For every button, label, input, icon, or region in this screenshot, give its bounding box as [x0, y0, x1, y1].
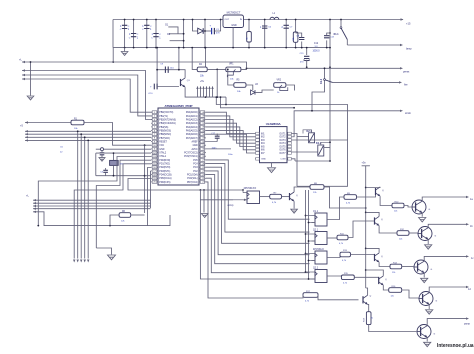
resistor R9 4.7k [344, 193, 357, 205]
resistor R11 4.7k [337, 233, 348, 245]
svg-text:PD7(OC2): PD7(OC2) [187, 182, 198, 184]
svg-text:Q: Q [296, 195, 298, 197]
resistor R18 vertical [364, 312, 374, 325]
wire input2 4 [33, 208, 151, 210]
wire reset drop [144, 145, 146, 213]
svg-text:lamp: lamp [406, 47, 412, 51]
svg-text:1k: 1k [372, 317, 374, 319]
svg-text:Q1.1: Q1.1 [313, 211, 319, 213]
wire +5 reset feed [25, 121, 71, 123]
svg-text:K1.1: K1.1 [334, 34, 340, 36]
relay K1.2 [292, 142, 331, 156]
svg-text:GND: GND [159, 149, 164, 151]
switch contact K1.3 [312, 67, 333, 110]
wire vt4 collector [429, 286, 469, 293]
svg-text:MC7805CT: MC7805CT [227, 11, 241, 15]
op-amp U2 left pins [151, 111, 176, 184]
svg-text:PB0(XCK/T0): PB0(XCK/T0) [159, 112, 173, 114]
wire VR1 out [241, 67, 248, 69]
trimmer VR1 [226, 64, 241, 81]
wire right riser [329, 19, 331, 161]
svg-text:Q: Q [381, 219, 383, 221]
svg-text:ATMEGA8535_PDIP: ATMEGA8535_PDIP [164, 104, 192, 108]
ground Q2 [291, 201, 298, 213]
svg-text:comp: comp [227, 204, 234, 207]
capacitor C2 [120, 19, 130, 49]
svg-text:Q: Q [382, 190, 384, 192]
terminal circle [101, 148, 104, 151]
capacitor C16 [100, 168, 108, 176]
wire optopin2 1 [308, 222, 315, 224]
svg-text:1000.0: 1000.0 [312, 51, 320, 53]
capacitor C4 [142, 19, 152, 49]
wire xtal1 line [95, 153, 97, 176]
node label +L2 [26, 195, 29, 198]
ground VT1 [419, 213, 426, 222]
svg-text:GND: GND [193, 145, 198, 147]
wire bundle 4 [206, 171, 310, 255]
wire opto rail a [305, 190, 307, 273]
node label fire [404, 83, 408, 87]
trimmer VR2 [274, 79, 295, 94]
wire pa4 to in5 [206, 127, 255, 147]
wire opto3 out [327, 255, 340, 258]
resistor R12 12k [397, 229, 409, 241]
wire r14 to vt3 [402, 266, 414, 268]
node label press [403, 70, 410, 74]
capacitor C3 [129, 19, 139, 49]
wire relay outer loop [292, 140, 348, 186]
ground VT5 [424, 337, 431, 346]
resistor R8 12k [310, 183, 367, 209]
wire avcc link [206, 149, 233, 156]
capacitor C10 electrolytic [148, 84, 179, 95]
resistor R3 vertical [293, 19, 298, 49]
svg-text:PB4(SS): PB4(SS) [159, 127, 168, 129]
svg-text:G: G [435, 236, 437, 238]
svg-text:G: G [434, 334, 436, 336]
svg-text:PC1(SDA): PC1(SDA) [187, 174, 198, 177]
transistor VT4 [418, 292, 437, 306]
node label comp [227, 204, 234, 207]
svg-text:PD2(INT0): PD2(INT0) [159, 167, 170, 169]
svg-text:PD0(RXD): PD0(RXD) [159, 160, 170, 162]
svg-text:PD5(OC1A): PD5(OC1A) [159, 177, 171, 180]
svg-text:C12: C12 [314, 43, 319, 45]
wire pa5 to in6 [206, 131, 255, 150]
resistor R1 [71, 119, 84, 130]
transistor VT1 [411, 200, 430, 214]
svg-text:4PC531x0: 4PC531x0 [313, 249, 324, 251]
wire +15 line [401, 18, 411, 25]
node label lamp [406, 47, 412, 51]
svg-text:4PC531XO: 4PC531XO [244, 187, 257, 190]
wire input 2 [22, 69, 158, 119]
wire vt3 collector [424, 255, 469, 261]
svg-text:Q2.1: Q2.1 [313, 229, 319, 231]
capacitor C19 electrolytic [300, 47, 310, 69]
wire input2 1 [33, 199, 151, 201]
wire r16 to vt4 [402, 290, 419, 298]
node label out4 [468, 288, 471, 291]
svg-text:Q2.2: Q2.2 [313, 267, 319, 269]
svg-text:PC3: PC3 [193, 167, 198, 169]
svg-text:PA0(ADC0): PA0(ADC0) [186, 111, 198, 114]
wire r10 to vt1 [404, 206, 411, 208]
svg-text:Q: Q [370, 296, 372, 298]
node label out1 [470, 198, 473, 201]
ground VT2 [425, 239, 432, 249]
wire reset run [84, 123, 151, 147]
wire pa2 to in3 [206, 120, 255, 141]
wire vref drop [225, 97, 227, 105]
wire to Q2 [282, 196, 290, 198]
svg-text:strob: strob [405, 111, 411, 115]
resistor R17 4.7k [303, 291, 359, 303]
node bus junction x205 [204, 19, 206, 49]
wire sense drop [216, 69, 218, 97]
wire optopin2 4 [308, 278, 315, 280]
svg-text:AVCC: AVCC [191, 148, 198, 151]
switch contact K1.1 [334, 19, 348, 45]
transistor Q4 [366, 212, 397, 233]
opto U8 4PC531x0 [305, 249, 327, 264]
svg-text:press: press [403, 70, 410, 74]
op-amp U2 ATMEGA8535 body [158, 104, 199, 185]
svg-text:PA4(ADC4): PA4(ADC4) [186, 126, 198, 129]
wire bundle 7 [206, 182, 303, 298]
wire pa1 to in2 [206, 116, 255, 137]
transistor VT2 [417, 227, 436, 241]
svg-text:fire: fire [404, 83, 408, 87]
capacitor C5 [151, 19, 161, 49]
wire bundle 5 [206, 175, 310, 264]
wire opto4 out [327, 276, 341, 277]
wire xtal2 line [96, 148, 151, 150]
capacitor C12 label [312, 43, 320, 53]
wire strob line [294, 110, 403, 137]
diode D2 [167, 33, 183, 36]
node label +L [19, 59, 22, 62]
driver U4 ULN2803A body [260, 122, 288, 163]
wire opto1 out [327, 197, 344, 220]
wire r18 to vt5 [369, 325, 417, 332]
transistor Q5 [366, 248, 390, 266]
svg-text:PD3(INT1): PD3(INT1) [159, 171, 170, 173]
svg-text:G: G [436, 301, 438, 303]
wire regulator gnd [232, 28, 234, 49]
ground VT4 [426, 304, 433, 314]
node label strob [405, 111, 411, 115]
diode D3 [192, 19, 209, 34]
svg-text:OUT4: OUT4 [279, 143, 286, 145]
capacitor C1 electrolytic [209, 19, 222, 35]
resistor R2 vertical [247, 19, 252, 49]
svg-text:Q: Q [381, 256, 383, 258]
node label out3 [471, 257, 474, 260]
wire comp net [200, 190, 315, 279]
svg-text:Q: Q [385, 279, 387, 281]
wire branch x157 [156, 47, 158, 87]
svg-text:PC5: PC5 [193, 160, 198, 162]
wire input 4 [22, 78, 158, 112]
svg-text:COM: COM [280, 159, 285, 161]
transistor VT5 [416, 325, 435, 339]
svg-text:PD1(TXD): PD1(TXD) [159, 164, 170, 166]
transistor Q2 [290, 187, 311, 201]
wire lamp line [347, 44, 403, 46]
op-amp U2 right pins [184, 111, 206, 184]
diode D1 [165, 24, 178, 34]
svg-text:PA6(ADC6): PA6(ADC6) [186, 133, 198, 136]
relay K2.1 [297, 130, 315, 143]
svg-text:PC7(TOSC2): PC7(TOSC2) [184, 153, 198, 155]
wire left bus drop [112, 20, 114, 48]
svg-text:RESET: RESET [159, 142, 167, 144]
watermark [437, 343, 474, 349]
wire isp 2 [25, 133, 151, 263]
capacitor C9 electrolytic [156, 64, 185, 73]
power +5v arrows [196, 80, 213, 97]
wire isp 4 [25, 139, 151, 262]
svg-text:PB3(OC0/AIN1): PB3(OC0/AIN1) [159, 122, 176, 125]
svg-text:PC2: PC2 [193, 171, 198, 173]
svg-text:ULN2803A: ULN2803A [266, 122, 282, 126]
diode U3 [251, 84, 274, 95]
transistor Q1 [181, 70, 197, 97]
wire isp 1 [25, 130, 151, 262]
wire COM link [292, 159, 296, 161]
wire vcc drop [205, 47, 207, 71]
wire avcc run b [220, 96, 295, 109]
svg-text:AREF: AREF [192, 141, 199, 144]
svg-text:PB6(MISO): PB6(MISO) [159, 134, 171, 136]
wire opto2 out [327, 237, 337, 239]
wire opto rail b [308, 190, 310, 279]
wire input 1 [22, 61, 247, 69]
ground connector1 [27, 61, 34, 100]
resistor R5 [227, 69, 253, 93]
svg-text:Interesnoe.pl.ua: Interesnoe.pl.ua [437, 343, 474, 349]
wire input2 5 [33, 211, 170, 227]
svg-text:PB7(SCK): PB7(SCK) [159, 138, 170, 140]
wire optopin2 2 [308, 240, 315, 242]
resistor R16 12k [389, 286, 402, 298]
wire r13 to q5 [351, 255, 375, 258]
wire gnd ref drop [191, 47, 197, 70]
wire pd nest 4 [148, 168, 152, 227]
wire pd nest 5 [150, 171, 153, 208]
svg-text:XTAL2: XTAL2 [159, 152, 167, 155]
resistor R15 4.7k [341, 273, 354, 285]
svg-text:VCC: VCC [159, 145, 164, 147]
wire pd nest 3 [73, 164, 151, 263]
svg-text:OUT2: OUT2 [279, 137, 286, 139]
wire input2 2 [33, 202, 151, 204]
node label +5 [20, 125, 23, 128]
svg-text:pump: pump [464, 323, 471, 326]
svg-text:OUT: OUT [225, 19, 230, 21]
svg-text:PD6(ICP1): PD6(ICP1) [159, 182, 170, 184]
wire bundle 6 [206, 178, 310, 273]
opto U7 Q2.1 [305, 229, 327, 244]
resistor R4 [197, 64, 207, 78]
svg-text:K1.3: K1.3 [321, 78, 323, 84]
transistor Q6 [366, 270, 389, 290]
wire vt5 collector [427, 317, 469, 325]
wire r12 to vt2 [409, 232, 417, 234]
node label pump [464, 323, 471, 326]
wire xtal1 stub [96, 152, 151, 154]
wire vt2 collector [428, 223, 469, 228]
wire diode return [170, 40, 184, 42]
wire pd nest 2 [96, 160, 151, 248]
opto U9 Q2.2 [305, 267, 327, 282]
wire input2 3 [33, 205, 151, 207]
ground hook [96, 248, 115, 260]
wire vt1 collector [422, 196, 469, 201]
power +5v rail [362, 162, 370, 288]
svg-text:G: G [431, 269, 433, 271]
wire bundle 1 [206, 160, 310, 219]
capacitor C15 [96, 175, 146, 177]
capacitor C8 [296, 33, 305, 48]
svg-text:PB5(MOSI): PB5(MOSI) [159, 131, 171, 133]
wire pa0 to in1 [206, 112, 255, 133]
wire out loop left [296, 137, 298, 187]
ground VT3 [421, 273, 428, 283]
wire comp feed [128, 179, 243, 191]
crystal Y1 [110, 153, 123, 176]
resistor R6 12k [110, 211, 145, 226]
ground mid [201, 190, 208, 218]
opto U6 Q1.1 [305, 211, 327, 226]
inductor L1 [270, 13, 279, 19]
wire pa3 to in4 [206, 123, 255, 143]
node bus junction x183.6 [183, 19, 185, 49]
wire bus drop to conn [112, 48, 114, 62]
wire top supply bus [113, 19, 403, 21]
wire fire line [333, 81, 403, 83]
svg-text:+15: +15 [406, 22, 411, 26]
svg-text:OUT5: OUT5 [279, 146, 286, 148]
wire relay bottom [295, 160, 331, 162]
svg-text:PA3(ADC3): PA3(ADC3) [186, 122, 198, 125]
svg-text:GND: GND [261, 159, 266, 161]
svg-text:PB2(INT2/AIN0): PB2(INT2/AIN0) [159, 118, 176, 121]
svg-text:GND: GND [231, 24, 237, 27]
wire bus riser [178, 47, 180, 71]
wire input 3 [22, 74, 158, 116]
capacitor C13 [324, 32, 335, 48]
wire optopin2 3 [308, 260, 315, 262]
svg-text:XTAL1: XTAL1 [159, 155, 167, 158]
transistor Q7 [363, 288, 372, 312]
ground ULN [268, 163, 276, 173]
svg-text:OUT3: OUT3 [279, 140, 286, 142]
svg-text:VR2: VR2 [277, 79, 282, 81]
regulator U1 MC7805 [223, 11, 244, 28]
wire R4 to VR1 [207, 69, 226, 71]
svg-text:OUT7: OUT7 [279, 153, 286, 155]
node label out2 [470, 225, 473, 228]
transistor Q3 [366, 187, 392, 206]
svg-text:PC0(SCL): PC0(SCL) [187, 178, 198, 180]
resistor R13 4.7k [340, 250, 351, 262]
svg-text:PB1(T1): PB1(T1) [159, 116, 168, 118]
svg-text:VR1: VR1 [229, 64, 234, 66]
wire relay k12 top [321, 141, 331, 145]
svg-text:PA7(ADC7): PA7(ADC7) [186, 137, 198, 140]
svg-text:G: G [429, 209, 431, 211]
wire out2 run [292, 136, 295, 138]
wire +5 manifold [196, 96, 226, 98]
wire pa6 to in7 [206, 134, 255, 153]
wire comp in [233, 199, 247, 201]
wire xtal join [145, 175, 151, 177]
wire opto out [260, 196, 270, 198]
svg-text:PA1(ADC1): PA1(ADC1) [186, 115, 198, 118]
svg-text:PC6(TOSC1): PC6(TOSC1) [184, 156, 198, 158]
svg-text:OUT1: OUT1 [279, 133, 286, 135]
capacitor C6 [260, 19, 272, 49]
wire bundle 3 [206, 167, 310, 243]
wire avcc run a [215, 96, 347, 140]
ground top-left [121, 48, 128, 56]
resistor R14 12k [390, 262, 402, 274]
wire isp 3 [25, 136, 151, 262]
wire r9 to q3 [357, 192, 376, 198]
wire bundle 2 [206, 164, 310, 233]
capacitor C7 [282, 19, 294, 49]
wire r15 to q6 [354, 277, 378, 280]
svg-text:PC4: PC4 [193, 164, 198, 166]
wire out1 run [292, 134, 298, 137]
svg-text:PD4(OC1B): PD4(OC1B) [159, 175, 171, 177]
svg-text:PA5(ADC5): PA5(ADC5) [186, 130, 198, 133]
svg-text:PA2(ADC2): PA2(ADC2) [186, 118, 198, 121]
transistor VT3 [413, 260, 432, 274]
wire ground/return bus [113, 47, 330, 49]
capacitor C14 [99, 151, 105, 162]
wire pd nest 1 [37, 157, 151, 227]
driver U4 pins [255, 132, 292, 160]
wire press line [247, 67, 404, 69]
resistor R10 12k [392, 201, 404, 212]
opto U5 4PC531x0 [242, 187, 259, 203]
capacitor C5 caption [60, 147, 64, 154]
resistor R7 4.7k [270, 193, 282, 204]
wire r11 to q4 [348, 221, 375, 238]
svg-text:OUT6: OUT6 [279, 150, 286, 152]
capacitor C17 [206, 133, 220, 150]
